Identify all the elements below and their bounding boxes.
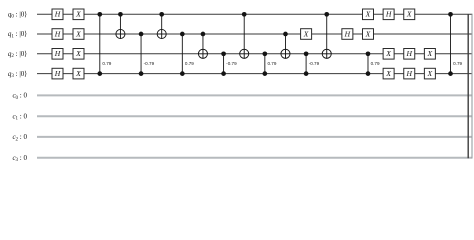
svg-text:X: X (365, 29, 371, 38)
svg-text:q2 : |0⟩: q2 : |0⟩ (8, 50, 27, 59)
svg-text:c1 : 0: c1 : 0 (12, 112, 27, 121)
svg-text:X: X (427, 49, 433, 58)
svg-text:q1 : |0⟩: q1 : |0⟩ (8, 30, 27, 39)
svg-text:-0.79: -0.79 (144, 61, 155, 66)
svg-text:H: H (54, 29, 61, 38)
svg-text:-0.79: -0.79 (226, 61, 237, 66)
svg-text:c3 : 0: c3 : 0 (12, 154, 27, 163)
svg-text:H: H (406, 49, 413, 58)
svg-text:H: H (406, 69, 413, 78)
svg-text:X: X (75, 49, 81, 58)
svg-text:X: X (385, 49, 391, 58)
svg-text:0.79: 0.79 (185, 61, 194, 66)
svg-text:-0.79: -0.79 (309, 61, 320, 66)
svg-text:c2 : 0: c2 : 0 (12, 133, 27, 142)
svg-text:H: H (54, 69, 61, 78)
svg-text:q0 : |0⟩: q0 : |0⟩ (8, 11, 27, 20)
svg-text:X: X (75, 10, 81, 19)
svg-text:X: X (75, 29, 81, 38)
svg-text:0.79: 0.79 (453, 61, 462, 66)
svg-text:0.79: 0.79 (371, 61, 380, 66)
svg-text:c0 : 0: c0 : 0 (12, 92, 27, 101)
svg-text:q3 : |0⟩: q3 : |0⟩ (8, 70, 27, 79)
svg-text:H: H (385, 10, 392, 19)
svg-text:X: X (75, 69, 81, 78)
svg-text:X: X (427, 69, 433, 78)
svg-text:H: H (54, 49, 61, 58)
svg-text:X: X (385, 69, 391, 78)
svg-text:0.79: 0.79 (267, 61, 276, 66)
svg-text:X: X (365, 10, 371, 19)
svg-text:X: X (406, 10, 412, 19)
svg-text:H: H (344, 29, 351, 38)
svg-text:0.79: 0.79 (102, 61, 111, 66)
svg-text:X: X (303, 29, 309, 38)
svg-text:H: H (54, 10, 61, 19)
